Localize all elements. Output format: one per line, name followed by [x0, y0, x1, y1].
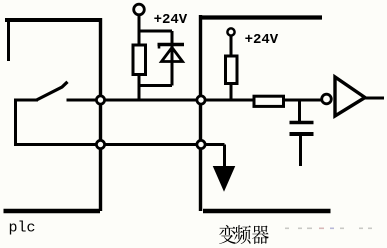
inverter box left edge [199, 15, 202, 211]
terminal T2 +24V circle right [227, 28, 234, 35]
resistor R1 [133, 45, 146, 75]
wire R3 to buffer [284, 99, 322, 102]
inverter box top edge [200, 15, 322, 19]
label char 频 [234, 225, 251, 244]
wire diode leg through [171, 31, 174, 86]
PLC box left edge stub [7, 18, 10, 61]
wire upper bus plc to inverter [101, 99, 201, 102]
wire ground branch horizontal [201, 143, 225, 146]
svg-text:+24V: +24V [245, 32, 279, 48]
PLC box right edge [99, 18, 102, 211]
node C lower left [96, 140, 104, 148]
wire switch right lead [67, 99, 100, 102]
wire ground branch vertical [223, 145, 226, 169]
wire bus to resistor R3 [201, 99, 255, 102]
wire R1 bottom [138, 75, 141, 88]
wire switch loop [16, 100, 99, 145]
PLC box bottom edge [4, 209, 101, 213]
node A upper left [96, 96, 104, 104]
wire join bar left branch [139, 84, 172, 87]
wire buffer output [364, 97, 384, 100]
ground arrow [214, 167, 235, 191]
buffer U1 input circle [322, 94, 332, 104]
watermark dots [285, 228, 372, 230]
wire T2 stem [230, 37, 233, 57]
buffer U1 triangle [335, 77, 365, 116]
wire split bar left branch [139, 30, 172, 33]
wire capacitor top tap [298, 100, 301, 121]
wire lower bus node to node [101, 143, 201, 146]
node D lower right [197, 140, 205, 148]
label char 器 [252, 226, 269, 244]
label char 变 [219, 225, 235, 244]
svg-text:+24V: +24V [154, 12, 188, 28]
terminal T1 +24V circle left [134, 4, 145, 15]
node B upper right [197, 96, 205, 104]
PLC box top edge [5, 18, 102, 22]
wire capacitor bottom stub [299, 136, 302, 167]
capacitor C1 plate 2 [290, 132, 314, 136]
wire R2 to bus [230, 84, 233, 101]
inverter box bottom edge [203, 209, 331, 213]
capacitor C1 plate 1 [290, 121, 314, 125]
wire branch to upper bus [138, 86, 141, 101]
diode D1 cathode bar [158, 43, 185, 46]
switch SW blade [37, 82, 68, 100]
resistor R3 horizontal [254, 96, 284, 106]
wire T1 stem [138, 15, 141, 33]
wire to resistor R1 [138, 31, 141, 45]
diode D1 cathode tick [158, 45, 161, 49]
diode D1 triangle [162, 48, 183, 62]
resistor R2 [226, 56, 238, 84]
svg-text:plc: plc [9, 220, 36, 237]
